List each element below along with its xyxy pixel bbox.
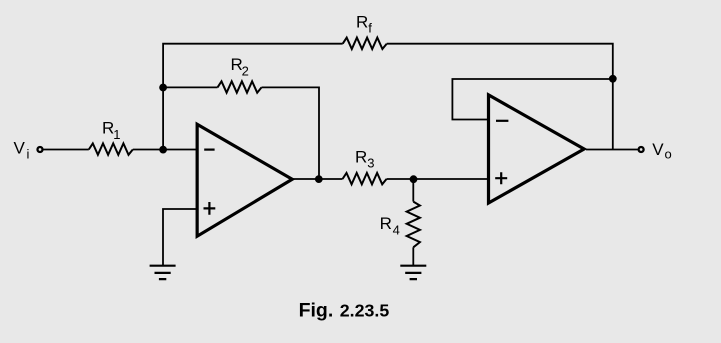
svg-text:V: V — [652, 140, 664, 159]
svg-text:4: 4 — [393, 223, 400, 238]
svg-text:Fig.: Fig. — [299, 300, 334, 322]
svg-text:i: i — [27, 146, 30, 161]
svg-text:V: V — [14, 139, 26, 158]
svg-text:3: 3 — [367, 155, 374, 170]
svg-text:f: f — [368, 21, 372, 36]
svg-text:2: 2 — [242, 64, 249, 79]
svg-text:1: 1 — [113, 127, 120, 142]
svg-text:R: R — [380, 214, 392, 233]
svg-text:o: o — [665, 147, 672, 162]
svg-text:2.23.5: 2.23.5 — [340, 301, 390, 321]
svg-text:R: R — [355, 148, 367, 167]
svg-text:R: R — [356, 13, 368, 32]
